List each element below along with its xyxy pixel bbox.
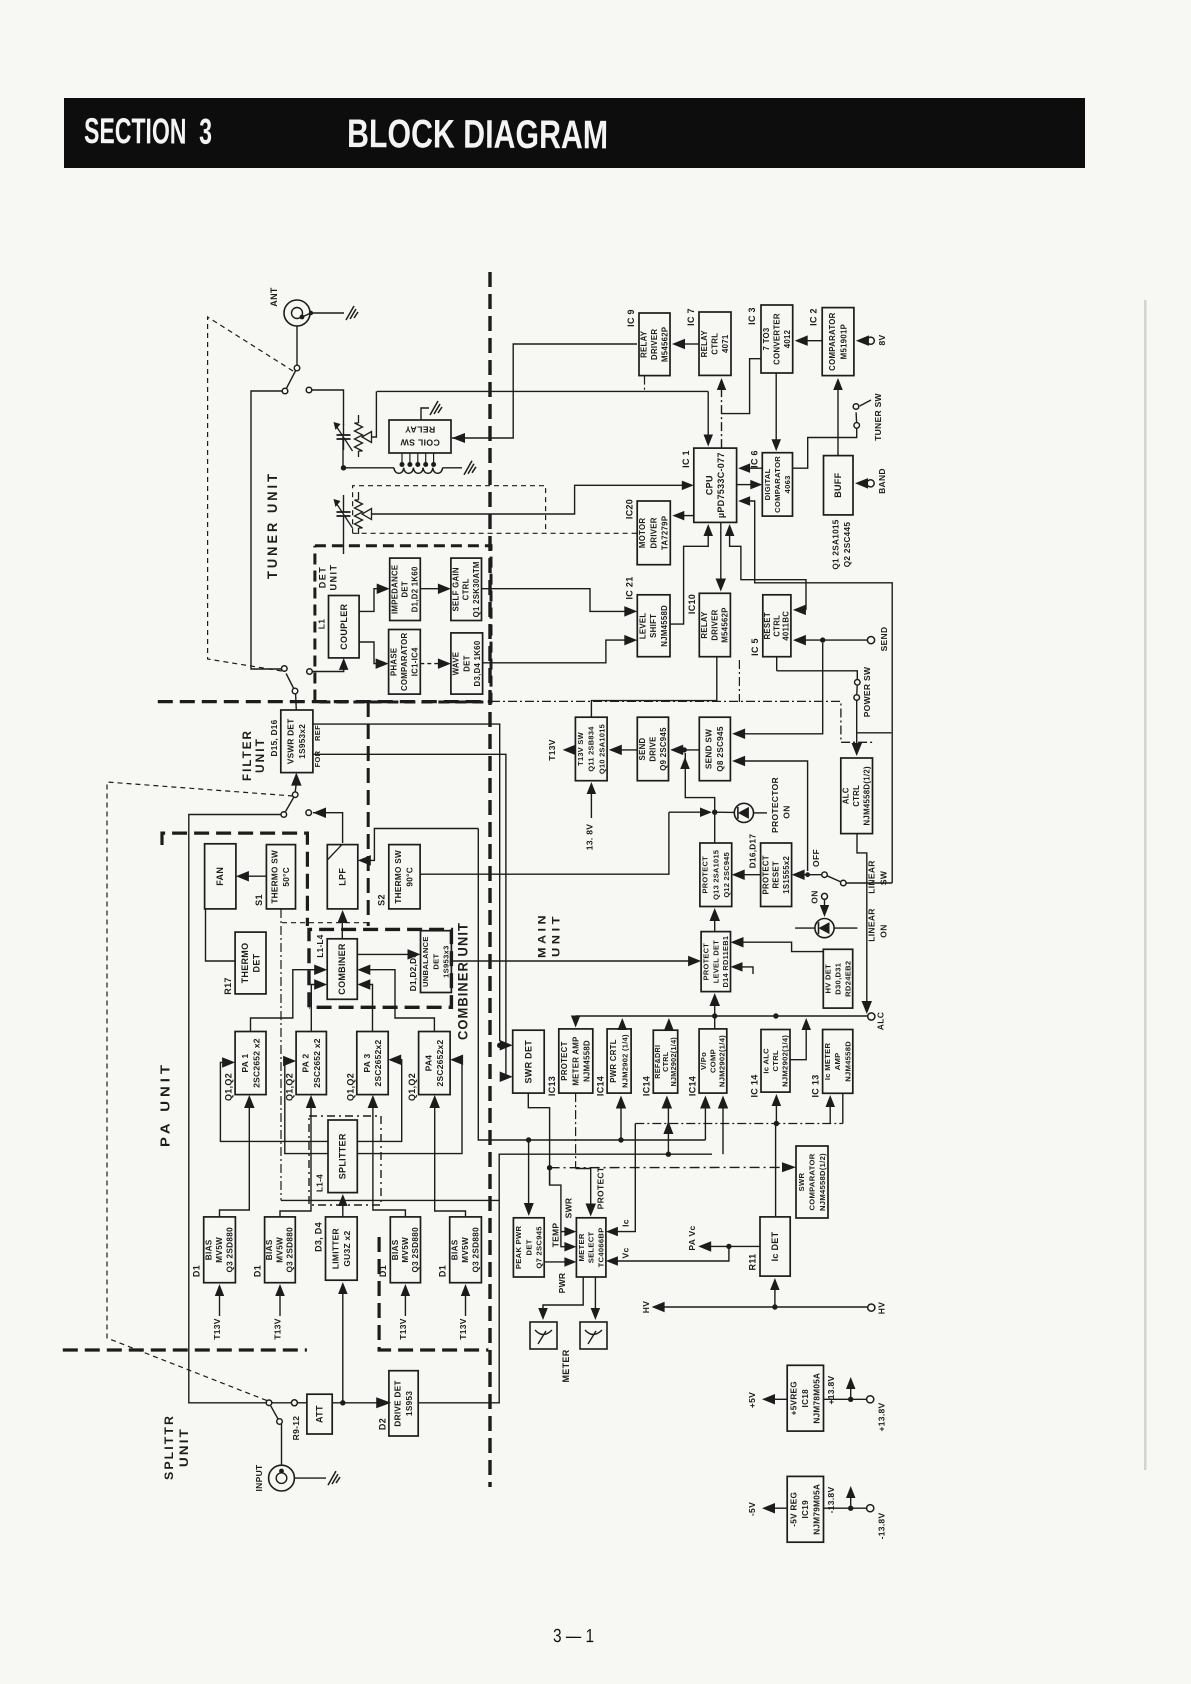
filter LPF [327, 845, 358, 909]
detector SELF GAIN CTRL [451, 558, 482, 620]
arrow pwr meterselect [544, 1257, 576, 1267]
svg-text:Q1 2SK30ATM: Q1 2SK30ATM [472, 561, 481, 617]
svg-text:SPLITTER: SPLITTER [338, 1133, 348, 1179]
main unit boundary dashed [488, 272, 491, 1487]
arrow pwrctl top [618, 1018, 628, 1030]
junction alc a [712, 1013, 717, 1018]
svg-text:METER: METER [577, 1233, 586, 1261]
wire tunersw tick [860, 400, 871, 406]
ground relay [430, 401, 442, 415]
wire powersw branch [857, 732, 892, 734]
junction pavc [726, 1244, 731, 1249]
switch S-ant lever [287, 365, 300, 388]
svg-text:Q9 2SC945: Q9 2SC945 [659, 727, 668, 771]
det unit dashed box [315, 546, 491, 702]
arrow splitter pa3 [357, 1055, 401, 1142]
svg-text:PA Vc: PA Vc [687, 1225, 697, 1250]
svg-text:M51901P: M51901P [839, 324, 848, 359]
svg-text:REF: REF [313, 725, 322, 741]
svg-text:RELAY: RELAY [700, 611, 709, 639]
svg-text:V/Po: V/Po [699, 1052, 708, 1070]
attenuator ATT [307, 1394, 332, 1434]
wire thermodet [206, 909, 236, 961]
arrow coupler impedance [359, 584, 390, 612]
detector SWR DET [513, 1030, 545, 1093]
meter M2 [580, 1322, 607, 1349]
bias BIAS1 [192, 1217, 236, 1283]
svg-text:PROTECT: PROTECT [701, 856, 710, 894]
svg-text:DET: DET [318, 566, 328, 589]
arrow impedance selfgain [420, 584, 451, 595]
arrow pwrctl bottom [616, 1096, 626, 1141]
label DET UNIT [318, 564, 339, 591]
amplifier PROTECT METER AMP IC13 [547, 1029, 593, 1096]
svg-text:PA4: PA4 [424, 1055, 434, 1072]
limiter LIMITTER [314, 1217, 358, 1280]
label FILTER UNIT [242, 729, 267, 781]
svg-text:IC13: IC13 [547, 1076, 557, 1096]
arrow phase wave [420, 658, 451, 669]
svg-text:ON: ON [782, 805, 792, 818]
arrow leveldet stub [731, 962, 754, 974]
svg-text:NJM78M05A: NJM78M05A [812, 1373, 821, 1424]
svg-text:S2: S2 [377, 894, 387, 906]
svg-text:2SC2652 x2: 2SC2652 x2 [251, 1038, 261, 1088]
svg-text:4012: 4012 [783, 329, 792, 348]
svg-text:WAVE: WAVE [452, 652, 461, 676]
arrow unbalance leveldet [451, 956, 701, 966]
svg-text:4071: 4071 [721, 334, 730, 353]
svg-text:LEVEL: LEVEL [638, 612, 647, 639]
wire icmeter right [842, 1093, 844, 1123]
terminal 8V [867, 337, 874, 344]
junction send drive [682, 747, 687, 752]
arrow reset protect [732, 870, 761, 881]
svg-text:DET: DET [431, 953, 440, 969]
svg-text:Q2 2SC445: Q2 2SC445 [843, 522, 852, 568]
terminal -13.8V [867, 1505, 874, 1512]
varicap VC1 [334, 415, 372, 457]
svg-text:TEMP: TEMP [551, 1223, 561, 1248]
label SPLITTR UNIT [162, 1414, 191, 1480]
wire ant to ground [302, 313, 344, 317]
arrow 8v ic2 [856, 335, 869, 346]
tuner main boundary dash-dot [491, 701, 875, 742]
svg-text:LIMITTER: LIMITTER [331, 1228, 341, 1269]
svg-text:NJM4558D: NJM4558D [583, 1040, 592, 1082]
wire sw4 att a [272, 1402, 291, 1404]
svg-text:VSWR DET: VSWR DET [287, 718, 296, 764]
arrow band buff [855, 478, 868, 489]
arrow linear on [820, 899, 829, 917]
svg-text:L1-L4: L1-L4 [316, 934, 325, 957]
wire led left [715, 811, 734, 813]
arrow -13.8 up [846, 1486, 856, 1508]
svg-text:SELF GAIN: SELF GAIN [452, 567, 461, 611]
svg-text:1S1555x2: 1S1555x2 [782, 855, 791, 893]
svg-text:RESET: RESET [772, 861, 781, 889]
svg-text:BUFF: BUFF [833, 472, 843, 497]
wire swr net [528, 1093, 549, 1186]
arrow coupler phase [359, 642, 389, 669]
arrow splitter pa4 [357, 1055, 463, 1154]
svg-text:8V: 8V [877, 334, 887, 345]
svg-text:NJM2902(1/4): NJM2902(1/4) [718, 1035, 727, 1087]
ic RELAY CTRL IC7 [686, 308, 731, 375]
wire prot down [714, 812, 716, 843]
svg-text:TUNER UNIT: TUNER UNIT [265, 471, 280, 579]
splitter dash-dot box [309, 1116, 381, 1205]
svg-text:PROTECT: PROTECT [702, 943, 711, 981]
ground input [328, 1471, 340, 1485]
arrow wave levelshift [483, 635, 638, 663]
svg-text:COMP: COMP [709, 1049, 718, 1073]
svg-text:Q11 2SB834: Q11 2SB834 [587, 726, 596, 772]
arrow t13v bias3 [401, 1284, 411, 1316]
arrow r11 bottom [770, 1278, 780, 1307]
svg-text:NJM4558D: NJM4558D [660, 605, 669, 647]
svg-text:BAND: BAND [877, 468, 887, 494]
terminal ON [822, 893, 828, 899]
switch S3 contact R [306, 810, 312, 816]
svg-text:M54562P: M54562P [660, 327, 669, 362]
junction refdrop [497, 1043, 502, 1048]
svg-text:ATT: ATT [315, 1405, 325, 1423]
svg-text:DIGITAL: DIGITAL [763, 468, 772, 500]
arrow +13.8 up [846, 1377, 856, 1399]
arrow swr comparator [550, 1162, 796, 1172]
svg-text:Ic DET: Ic DET [770, 1231, 780, 1261]
arrow t13v bias1 [215, 1284, 224, 1316]
arrow ic7 ic9 [672, 339, 699, 349]
amplifier Ic METER AMP IC13 [811, 1030, 853, 1098]
switch S-ant contact right [306, 387, 312, 393]
arrow drive limitter [338, 1282, 348, 1403]
svg-text:D1: D1 [253, 1265, 263, 1277]
svg-text:SWR: SWR [564, 1198, 574, 1219]
junction prot [712, 810, 717, 815]
bias BIAS2 [253, 1217, 296, 1283]
arrow icalc join [790, 1018, 811, 1060]
switch POWER SW [855, 680, 861, 695]
svg-text:MAIN: MAIN [537, 912, 549, 958]
svg-text:Q3 2SD880: Q3 2SD880 [226, 1227, 235, 1273]
arrow cpu motor [672, 511, 694, 521]
svg-text:IC20: IC20 [625, 499, 635, 519]
arrow sendsw drive [670, 745, 699, 756]
junction -13.8 [848, 1506, 853, 1511]
detector PHASE COMPARATOR [389, 630, 421, 695]
svg-text:S1: S1 [254, 894, 264, 906]
svg-text:HV: HV [877, 1302, 887, 1314]
svg-text:D1: D1 [438, 1265, 448, 1277]
wire REF [313, 724, 500, 1041]
svg-text:METER AMP: METER AMP [571, 1036, 580, 1085]
arrow T13V out [563, 745, 576, 756]
wire vc1 node [372, 391, 376, 437]
svg-text:Ic: Ic [621, 1219, 631, 1227]
arrow combiner unbalance [357, 949, 420, 960]
svg-text:IC14: IC14 [688, 1076, 698, 1096]
svg-text:DET: DET [524, 1239, 533, 1255]
svg-text:GU3Z x2: GU3Z x2 [342, 1231, 352, 1267]
switch S4 contact [266, 1400, 272, 1406]
svg-text:T13V: T13V [547, 739, 557, 761]
svg-text:RELAY: RELAY [405, 424, 436, 434]
svg-text:COIL SW: COIL SW [400, 437, 440, 447]
arrow att splitter [338, 1194, 348, 1217]
svg-text:D1,D2 1K60: D1,D2 1K60 [411, 566, 420, 612]
arrow ic2 ic3 [795, 335, 823, 346]
terminal BAND [867, 480, 874, 487]
combiner thin boundary dash [282, 922, 368, 924]
label MAIN UNIT [537, 912, 563, 958]
svg-text:UNIT: UNIT [551, 913, 563, 957]
svg-text:FILTER: FILTER [242, 729, 254, 781]
switch THERMO SW 90 [377, 845, 421, 909]
arrow ic6 cpu a [738, 463, 762, 473]
svg-text:Q1,Q2: Q1,Q2 [407, 1073, 417, 1101]
arrow buff ic2 [833, 378, 843, 456]
fan FAN [205, 844, 236, 909]
svg-text:Q1 2SA1015: Q1 2SA1015 [832, 519, 841, 569]
svg-text:R17: R17 [223, 977, 233, 994]
svg-text:COMPARATOR: COMPARATOR [773, 456, 782, 513]
bias BIAS3 [378, 1217, 421, 1283]
arrow +5V [762, 1394, 787, 1405]
svg-text:SPLITTR: SPLITTR [162, 1414, 176, 1480]
svg-text:PA 3: PA 3 [362, 1054, 372, 1073]
switch S4 lever [271, 1406, 283, 1424]
ic RELAY DRIVER IC10 [687, 593, 730, 656]
svg-text:BIAS: BIAS [265, 1239, 274, 1260]
protector PROTECT Q13 Q12 [700, 843, 732, 907]
junction hv [772, 1304, 777, 1309]
svg-text:4063: 4063 [783, 475, 792, 493]
arrow vpo bottom a [700, 1096, 711, 1141]
svg-text:THERMO: THERMO [240, 943, 250, 984]
svg-text:AMP: AMP [833, 1053, 842, 1071]
arrow 13.8 t13vsw [587, 782, 597, 818]
wire linearled right [834, 927, 857, 929]
svg-text:-5V: -5V [747, 1502, 757, 1516]
svg-text:4011BC: 4011BC [782, 611, 791, 641]
svg-text:IC 6: IC 6 [750, 450, 760, 468]
svg-text:SEND: SEND [638, 738, 647, 761]
arrow icmeter bottom [826, 1095, 836, 1124]
wire ant down [296, 326, 298, 365]
pa unit bottom boundary dashed [63, 1348, 307, 1351]
svg-text:2SC2652x2: 2SC2652x2 [435, 1039, 445, 1086]
switch POWER SW c2 [854, 695, 860, 701]
junction +13.8 [848, 1397, 853, 1402]
wire vc1 coil [342, 437, 344, 468]
selector METER SELECT [576, 1218, 606, 1277]
wire ic10 t13vsw [591, 657, 716, 718]
junction ant [309, 311, 313, 315]
svg-text:NJM4558D(1/2): NJM4558D(1/2) [863, 766, 872, 825]
svg-text:PA 2: PA 2 [301, 1054, 311, 1073]
svg-text:CPU: CPU [704, 475, 714, 495]
svg-text:PEAK PWR: PEAK PWR [514, 1226, 523, 1270]
svg-text:50°C: 50°C [282, 867, 291, 887]
arrow prot node [669, 808, 712, 818]
arrow selfgain levelshift [482, 589, 638, 617]
svg-text:IC 2: IC 2 [809, 308, 819, 326]
svg-text:FOR: FOR [313, 750, 322, 767]
svg-text:HV DET: HV DET [824, 964, 833, 994]
svg-text:METER: METER [561, 1349, 571, 1382]
svg-text:SW: SW [879, 870, 889, 885]
arrow bias pa1 [220, 1095, 255, 1217]
arrow t13v bias4 [461, 1284, 470, 1316]
svg-text:OFF: OFF [811, 849, 821, 867]
wire linearled left [795, 927, 815, 929]
wire coil left [344, 467, 395, 469]
svg-text:Ic METER: Ic METER [823, 1042, 832, 1080]
arrow pa1 combiner [251, 965, 328, 1032]
detector DRIVE DET [378, 1371, 419, 1436]
svg-text:DET: DET [401, 581, 410, 598]
wire ic9 bottom [644, 376, 646, 392]
junction coil [341, 465, 346, 470]
svg-text:COMBINER UNIT: COMBINER UNIT [455, 922, 471, 1040]
ic COMPARATOR IC2 [809, 308, 854, 376]
svg-text:COMPARATOR: COMPARATOR [400, 633, 409, 692]
arrow senddrive t13v [609, 745, 638, 756]
svg-text:SEND SW: SEND SW [705, 729, 714, 769]
arrow splitter pa1 [220, 1057, 328, 1141]
connector INPUT [269, 1465, 295, 1491]
svg-text:FAN: FAN [215, 867, 225, 886]
arrow HV left [652, 1302, 867, 1312]
wire input ground [294, 1477, 326, 1479]
splitter L1-4 [316, 1120, 358, 1193]
svg-text:L1: L1 [317, 619, 327, 630]
arrow meter2 [591, 1308, 601, 1320]
svg-text:D3, D4: D3, D4 [314, 1222, 324, 1252]
arrow sense cpu [704, 391, 714, 446]
junction send [820, 637, 825, 642]
svg-text:INPUT: INPUT [254, 1464, 264, 1492]
svg-text:Q1,Q2: Q1,Q2 [224, 1073, 234, 1101]
wire drive out [418, 1154, 712, 1403]
arrow -5V [762, 1503, 787, 1514]
svg-text:THERMO SW: THERMO SW [271, 850, 280, 904]
arrow hvdet leveldet [731, 937, 824, 952]
wire meter2 [594, 1277, 596, 1310]
svg-text:PWR: PWR [557, 1273, 567, 1294]
svg-text:T13V: T13V [212, 1318, 222, 1340]
wire vc2 stub [343, 495, 345, 501]
wire linearsw out [846, 882, 892, 884]
svg-text:NJM2902(1/4): NJM2902(1/4) [669, 1037, 678, 1087]
svg-text:ALC: ALC [842, 787, 851, 804]
wire +13.8V [824, 1398, 867, 1400]
combiner unit dashed box [309, 929, 451, 1007]
svg-text:COMPARATOR: COMPARATOR [808, 1153, 817, 1210]
arrow net cpu b [738, 496, 892, 883]
meter M1 [530, 1322, 557, 1349]
svg-text:LINEAR: LINEAR [867, 860, 877, 893]
svg-text:NJM79M05A: NJM79M05A [812, 1484, 821, 1535]
controller PWR CRTL IC14 [596, 1029, 632, 1096]
svg-text:NJM2902 (1/4): NJM2902 (1/4) [620, 1034, 629, 1088]
arrow into swrdet 1 [500, 1040, 513, 1051]
wire -13.8V [824, 1507, 867, 1509]
ic 7TO3 CONVERTER IC3 [747, 305, 793, 373]
switch LINEAR SW [822, 872, 841, 882]
svg-text:D14 RD11EB1: D14 RD11EB1 [721, 936, 730, 988]
arrow cpu ic7 [717, 378, 726, 448]
svg-text:MV5W: MV5W [461, 1237, 470, 1263]
svg-text:T13V SW: T13V SW [576, 732, 585, 766]
svg-text:UNIT: UNIT [255, 737, 267, 773]
arrow combiner lpf [337, 910, 348, 939]
arrow send sendsw b [732, 756, 808, 871]
svg-text:LPF: LPF [338, 868, 348, 886]
svg-text:POWER SW: POWER SW [862, 666, 872, 717]
svg-text:LEVEL DET: LEVEL DET [711, 940, 720, 983]
svg-text:UNIT: UNIT [177, 1427, 191, 1467]
switch SEND SW [699, 717, 730, 781]
svg-text:COMPARATOR: COMPARATOR [828, 312, 837, 371]
detector PROTECT LEVEL DET [701, 932, 730, 992]
svg-text:DRIVER: DRIVER [710, 609, 719, 640]
svg-text:+13.8V: +13.8V [826, 1375, 836, 1404]
arrow lpf to sw [313, 808, 343, 844]
controller Ic ALC CTRL IC14 [750, 1030, 791, 1098]
regulator -5V REG IC19 [787, 1476, 823, 1542]
ic RELAY DRIVER IC9 [626, 309, 670, 375]
filter pa divider dashed [367, 702, 370, 926]
arrow pos cpu [372, 481, 694, 514]
svg-text:IC1-IC4: IC1-IC4 [411, 647, 420, 676]
wire reset bottom [776, 657, 778, 671]
svg-text:IC10: IC10 [687, 594, 697, 614]
svg-text:Q3 2SD880: Q3 2SD880 [472, 1227, 481, 1273]
svg-text:-13.8V: -13.8V [877, 1513, 887, 1540]
arrow vpo bottom b [718, 1096, 728, 1155]
arrow into drive det [376, 1397, 391, 1408]
wire coil right [443, 467, 463, 469]
junction swr [547, 1165, 552, 1170]
driver SEND DRIVE [637, 717, 668, 781]
svg-text:IC 9: IC 9 [626, 309, 636, 327]
terminal SEND [867, 637, 874, 644]
arrow cpu ic6 [737, 480, 763, 490]
terminal ALC [868, 1013, 875, 1020]
svg-text:RESET: RESET [763, 612, 772, 640]
boundary stub dash-dot [738, 660, 740, 702]
protector PROTECT RESET [749, 834, 792, 907]
filter unit top boundary dashed [158, 700, 491, 703]
svg-text:MV5W: MV5W [401, 1237, 410, 1263]
switch S2 contact L [282, 666, 288, 672]
arrow bias pa3 [368, 1095, 406, 1217]
header bar [64, 98, 1085, 168]
wire ic3 left [722, 359, 762, 414]
arrow powersw alcctrl [852, 700, 863, 756]
svg-text:T13V: T13V [458, 1318, 468, 1340]
detector HV DET [823, 949, 852, 1008]
svg-text:TUNER SW: TUNER SW [873, 392, 883, 440]
svg-text:RD24EB2: RD24EB2 [843, 961, 852, 997]
svg-text:13. 8V: 13. 8V [585, 824, 595, 850]
svg-text:R9-12: R9-12 [291, 1416, 301, 1441]
svg-text:CONVERTER: CONVERTER [772, 313, 781, 365]
controller ALC CTRL [841, 758, 873, 834]
